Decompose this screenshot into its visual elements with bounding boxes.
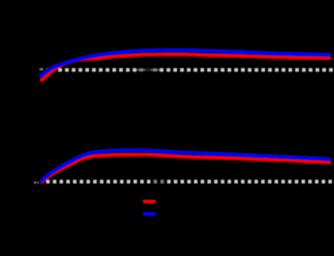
top dashed asymptote, upper line — [40, 68, 54, 70]
legend red line sample — [143, 200, 156, 203]
top dashed-line interference patch — [137, 68, 160, 73]
top panel blue curve — [39, 50, 331, 77]
top panel red curve — [40, 54, 331, 81]
bottom dashed asymptote, upper line — [46, 180, 333, 182]
bottom panel blue curve — [40, 150, 331, 182]
legend blue line sample — [143, 212, 156, 216]
bottom dashed-line interference patch — [154, 179, 167, 184]
bottom dashed asymptote, lower line — [46, 181, 333, 183]
top dashed asymptote, lower line — [58, 69, 333, 71]
bottom panel red curve — [41, 155, 331, 183]
bottom dashed pre-fragment at left edge — [34, 182, 36, 184]
